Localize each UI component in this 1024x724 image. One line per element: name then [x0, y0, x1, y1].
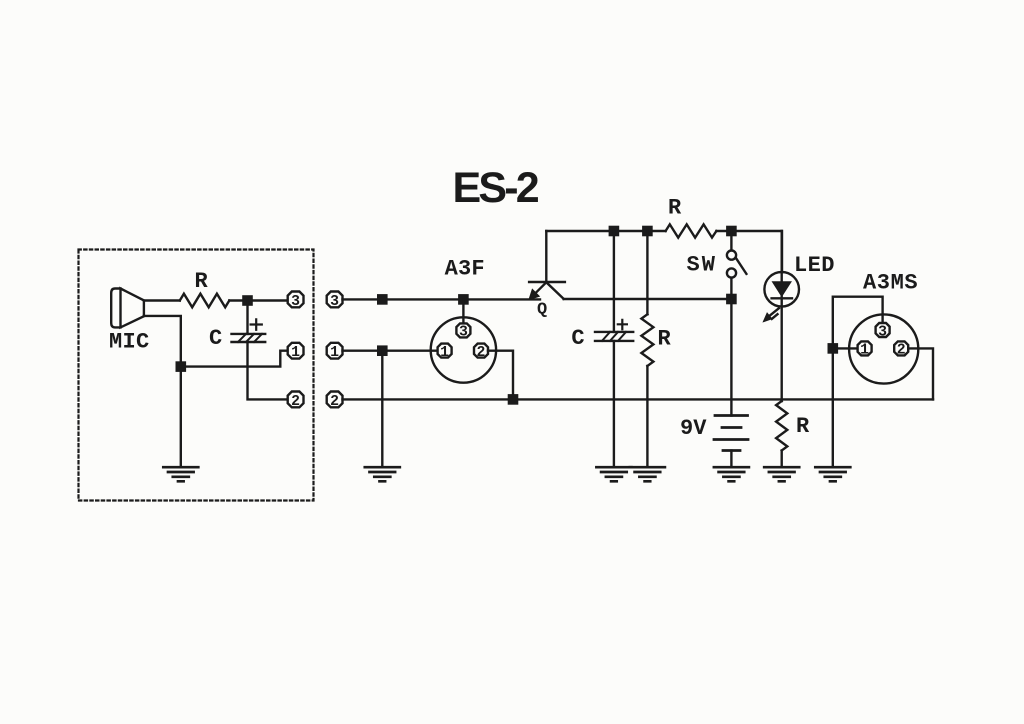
wire J4 down to ground — [381, 351, 383, 467]
junction J6 — [508, 394, 519, 405]
transistor Q — [529, 231, 565, 299]
wire SW junction to battery — [730, 299, 732, 416]
svg-text:C: C — [571, 326, 584, 351]
svg-text:R: R — [658, 327, 672, 352]
junction J3 — [377, 294, 388, 305]
svg-text:R: R — [796, 414, 810, 439]
junction J5 — [458, 294, 469, 305]
plus sign C1 — [251, 319, 262, 330]
resistor R2 branch — [646, 231, 648, 467]
A3MS pin 1 — [858, 341, 872, 358]
junction J9 — [726, 226, 737, 237]
junction J2 — [176, 361, 187, 372]
resistor R2 — [641, 314, 653, 366]
wire A3MS pin3 loop — [833, 297, 883, 467]
resistor R top — [666, 224, 717, 237]
A3MS pin 2 — [894, 341, 908, 358]
wire A3F pin2 down to row2 — [488, 351, 513, 400]
svg-text:1: 1 — [440, 345, 449, 361]
ground (R3) — [764, 467, 799, 481]
top rail — [546, 231, 782, 272]
A3F pin 3 — [456, 323, 470, 340]
wire A3MS pin2 to row2 — [908, 348, 933, 399]
svg-text:Q: Q — [537, 300, 547, 319]
svg-text:MIC: MIC — [109, 330, 150, 355]
switch SW — [727, 231, 747, 299]
junction J8 — [642, 226, 653, 237]
svg-text:LED: LED — [794, 253, 835, 278]
terminal 2 left — [288, 392, 304, 410]
A3MS pin 3 — [876, 323, 890, 340]
junction J7 — [609, 226, 620, 237]
svg-text:2: 2 — [477, 345, 486, 361]
A3F pin 2 — [474, 344, 488, 361]
ground (A3F) — [365, 467, 400, 481]
wire mic top to R1 — [144, 299, 180, 301]
wire row1 to A3F pin1 — [343, 350, 437, 352]
connector A3F — [431, 317, 496, 382]
junction J1 — [242, 295, 253, 306]
junction J4 — [377, 345, 388, 356]
terminal 3 left — [288, 292, 304, 310]
microphone MIC — [111, 289, 144, 328]
svg-text:1: 1 — [330, 345, 339, 361]
terminal 2 right — [327, 392, 343, 410]
battery 9V — [714, 416, 748, 451]
svg-text:A3F: A3F — [445, 257, 485, 282]
junction J11 — [828, 343, 839, 354]
ground (A3MS) — [815, 467, 850, 481]
connector A3MS — [849, 314, 918, 383]
svg-text:3: 3 — [330, 294, 339, 310]
wire J2 to terminal 1 — [181, 351, 287, 367]
ground (mic box) — [163, 467, 198, 481]
wire C1 bottom to terminal 2 — [248, 342, 288, 399]
svg-text:R: R — [668, 196, 682, 221]
wire J5 to pin3 — [462, 299, 464, 322]
wire mic bottom down — [144, 316, 181, 467]
ground (R2) — [630, 467, 665, 481]
wire row3 to transistor — [343, 298, 541, 300]
svg-text:9V: 9V — [680, 416, 707, 441]
capacitor C1 — [232, 334, 266, 342]
wire J11 to pin1 — [833, 347, 856, 349]
junction J10 — [726, 294, 737, 305]
svg-text:1: 1 — [291, 345, 300, 361]
dashed enclosure box — [79, 250, 314, 501]
svg-text:2: 2 — [897, 343, 906, 359]
capacitor C1 lead — [246, 301, 248, 334]
resistor R3 — [776, 401, 787, 451]
ground (C2) — [596, 467, 631, 481]
LED branch wire — [781, 231, 783, 401]
wire R1 to terminal 3 — [229, 299, 287, 301]
svg-text:R: R — [195, 269, 209, 294]
resistor R1 — [180, 294, 230, 308]
svg-text:2: 2 — [291, 394, 300, 410]
LED light arrows — [764, 308, 779, 321]
wire row2 long — [343, 398, 934, 400]
capacitor C2 — [595, 332, 633, 341]
svg-text:2: 2 — [330, 394, 339, 410]
svg-text:C: C — [209, 326, 222, 351]
svg-text:3: 3 — [459, 325, 468, 341]
ground (battery) — [714, 467, 749, 481]
terminal 1 left — [288, 343, 304, 361]
svg-text:A3MS: A3MS — [863, 271, 918, 296]
svg-text:SW: SW — [687, 252, 717, 277]
plus sign C2 — [618, 320, 627, 330]
terminal 1 right — [327, 343, 343, 361]
LED — [764, 272, 799, 307]
A3F pin 1 — [438, 344, 452, 361]
wire emitter to SW junction — [564, 298, 732, 300]
svg-text:3: 3 — [878, 324, 887, 340]
svg-text:ES-2: ES-2 — [453, 164, 539, 212]
svg-text:1: 1 — [860, 343, 869, 359]
terminal 3 right — [327, 292, 343, 310]
svg-text:3: 3 — [291, 294, 300, 310]
capacitor C2 branch — [613, 231, 615, 467]
